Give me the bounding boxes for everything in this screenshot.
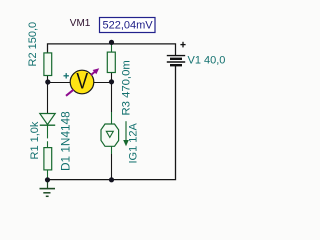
IG1 direction arrow bbox=[123, 121, 129, 146]
current source IG1 bbox=[101, 124, 119, 146]
wire voltmeter row left bbox=[48, 76, 71, 83]
svg-text:V: V bbox=[76, 70, 88, 94]
wire IG1 bottom lead bbox=[111, 146, 113, 154]
svg-text:R1 1,0k: R1 1,0k bbox=[29, 121, 41, 159]
svg-text:D1 1N4148: D1 1N4148 bbox=[59, 111, 73, 171]
svg-text:522,04mV: 522,04mV bbox=[103, 19, 154, 31]
svg-text:IG1 12A: IG1 12A bbox=[128, 122, 140, 163]
wire diode to R1 bbox=[47, 125, 49, 148]
battery plus sign bbox=[180, 42, 185, 48]
wire voltmeter row right bbox=[93, 82, 111, 84]
node right junction bbox=[109, 79, 114, 84]
diode D1 bbox=[40, 114, 55, 126]
node top (VM1 probe) bbox=[109, 40, 114, 45]
wire R1 to bottom node bbox=[47, 171, 49, 180]
svg-text:VM1: VM1 bbox=[70, 18, 91, 29]
ground bbox=[40, 181, 56, 196]
wire mid column upper lead bbox=[111, 44, 113, 52]
resistor R3 bbox=[107, 52, 115, 72]
node left junction bbox=[45, 79, 50, 84]
node bottom mid bbox=[109, 177, 114, 182]
voltmeter VM1 bbox=[70, 70, 94, 94]
voltmeter arrow bbox=[66, 68, 99, 96]
wire bottom rail bbox=[48, 66, 176, 180]
svg-text:R2 150,0: R2 150,0 bbox=[27, 22, 39, 67]
svg-text:V1 40,0: V1 40,0 bbox=[188, 55, 226, 67]
wire mid column R3 to IG1 bbox=[111, 73, 113, 112]
battery V1 bbox=[167, 56, 185, 66]
meter readout box bbox=[100, 18, 156, 33]
svg-text:R3 470,0m: R3 470,0m bbox=[121, 60, 133, 115]
wire top rail bbox=[48, 44, 176, 55]
resistor R1 bbox=[44, 148, 52, 170]
wire diode column bbox=[47, 83, 49, 114]
resistor R2 bbox=[44, 53, 52, 76]
voltmeter plus sign bbox=[64, 73, 69, 78]
node bottom left bbox=[45, 177, 50, 182]
